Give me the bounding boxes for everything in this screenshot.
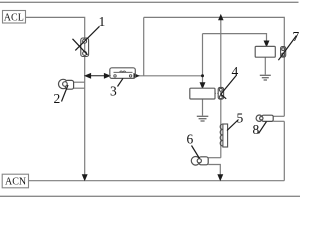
svg-text:1: 1 xyxy=(99,14,106,29)
svg-text:3: 3 xyxy=(110,84,117,99)
svg-text:4: 4 xyxy=(232,64,239,79)
svg-text:ACN: ACN xyxy=(5,176,26,187)
svg-text:7: 7 xyxy=(293,29,300,44)
svg-text:2: 2 xyxy=(54,91,61,106)
svg-text:6: 6 xyxy=(187,132,194,147)
svg-text:8: 8 xyxy=(253,122,260,137)
svg-text:ACL: ACL xyxy=(4,12,24,23)
svg-text:5: 5 xyxy=(237,111,244,126)
